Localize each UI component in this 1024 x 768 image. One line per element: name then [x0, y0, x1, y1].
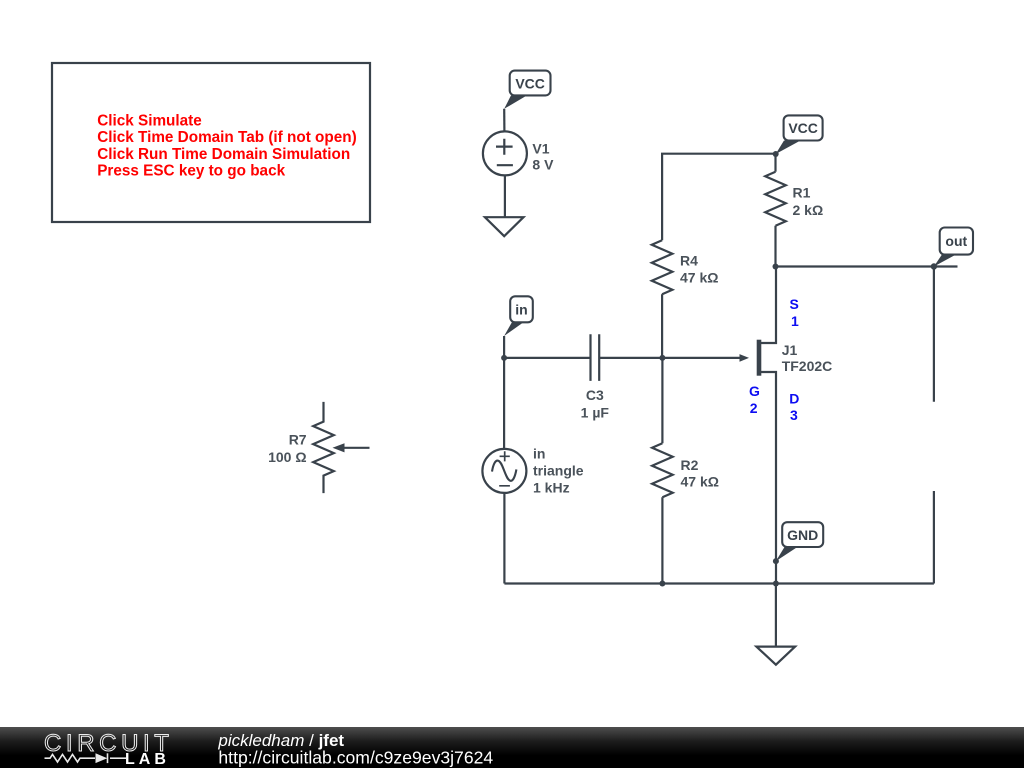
flag tail GND	[776, 547, 798, 561]
wire R2 to bottom rail	[661, 497, 663, 583]
svg-text:in: in	[515, 302, 527, 318]
resistor R2	[652, 443, 673, 497]
bottom rail wire	[504, 582, 934, 584]
svg-text:8 V: 8 V	[532, 157, 554, 173]
flag VCC2 box	[784, 115, 823, 140]
flag tail VCC1	[504, 95, 527, 108]
svg-text:Click Run Time Domain Simulati: Click Run Time Domain Simulation	[97, 146, 350, 163]
wire in flag tail to node	[503, 336, 505, 358]
flag boxes	[510, 71, 973, 547]
svg-text:R4: R4	[680, 252, 698, 268]
flag GND box	[782, 522, 823, 547]
resistor R4	[652, 240, 673, 294]
wire in node to source	[503, 358, 505, 449]
wire V1 to ground	[504, 175, 506, 217]
wire node to R2	[661, 358, 663, 443]
svg-text:Click Simulate: Click Simulate	[97, 112, 202, 129]
svg-text:Click Time Domain Tab (if not: Click Time Domain Tab (if not open)	[97, 129, 357, 146]
svg-text:1 kHz: 1 kHz	[533, 480, 570, 496]
svg-text:2: 2	[750, 400, 758, 416]
logo squiggle	[45, 753, 127, 763]
svg-text:GND: GND	[787, 527, 818, 543]
flag tail VCC2	[776, 141, 801, 155]
svg-text:3: 3	[790, 407, 798, 423]
instruction box	[52, 63, 370, 222]
wire out down upper segment	[933, 267, 935, 402]
wire out rail	[776, 265, 958, 267]
flag VCC1 box	[510, 71, 551, 96]
svg-text:R7: R7	[289, 432, 307, 448]
svg-text:D: D	[789, 391, 799, 407]
svg-text:out: out	[945, 233, 967, 249]
svg-text:1 µF: 1 µF	[581, 404, 610, 420]
resistor R1	[765, 172, 786, 226]
wire R1 to out node	[774, 226, 776, 267]
wire drain to ground	[775, 584, 777, 647]
svg-text:R2: R2	[681, 457, 699, 473]
voltage source V1	[483, 131, 527, 175]
flag in box	[510, 296, 533, 322]
potentiometer wiper arrowhead	[333, 443, 345, 452]
flag out box	[940, 228, 973, 255]
svg-text:VCC: VCC	[515, 76, 545, 92]
flag labels	[515, 76, 967, 544]
wire C3 to gate	[599, 357, 741, 359]
source V2 triangle generator	[482, 449, 526, 493]
jfet J1	[759, 267, 776, 584]
svg-text:LAB: LAB	[125, 751, 170, 768]
wire VCC node to R1	[774, 154, 776, 172]
logo diode	[96, 753, 108, 763]
svg-text:triangle: triangle	[533, 463, 584, 479]
instruction text	[97, 112, 357, 179]
potentiometer R7 wiper wire	[344, 447, 370, 449]
wire top rail VCC to R4	[662, 154, 776, 241]
svg-text:TF202C: TF202C	[782, 358, 833, 374]
svg-text:100 Ω: 100 Ω	[268, 449, 306, 465]
svg-text:VCC: VCC	[788, 120, 818, 136]
svg-text:R1: R1	[793, 185, 811, 201]
svg-text:1: 1	[791, 313, 799, 329]
svg-text:Press ESC key to go back: Press ESC key to go back	[97, 163, 285, 180]
svg-text:http://circuitlab.com/c9ze9ev3: http://circuitlab.com/c9ze9ev3j7624	[218, 747, 493, 767]
svg-text:V1: V1	[532, 141, 549, 157]
svg-text:2 kΩ: 2 kΩ	[793, 202, 824, 218]
jfet gate arrowhead	[740, 354, 750, 362]
svg-text:S: S	[790, 296, 799, 312]
wire V1 VCC tail to circle	[503, 109, 505, 132]
flag tail out	[934, 255, 956, 267]
svg-text:47 kΩ: 47 kΩ	[680, 269, 718, 285]
ground symbol GND	[756, 647, 795, 665]
svg-text:G: G	[749, 383, 760, 399]
wire node to C3	[504, 357, 590, 359]
svg-text:J1: J1	[782, 342, 798, 358]
wire source to bottom rail	[503, 493, 505, 584]
svg-text:C3: C3	[586, 387, 604, 403]
flag tail in	[504, 322, 523, 336]
ground symbol V1	[485, 217, 524, 236]
svg-text:47 kΩ: 47 kΩ	[681, 474, 719, 490]
capacitor C3	[591, 334, 600, 381]
wire R4 to node	[661, 294, 663, 358]
potentiometer R7	[313, 402, 334, 493]
svg-text:in: in	[533, 446, 545, 462]
wire out down lower segment	[933, 491, 935, 584]
